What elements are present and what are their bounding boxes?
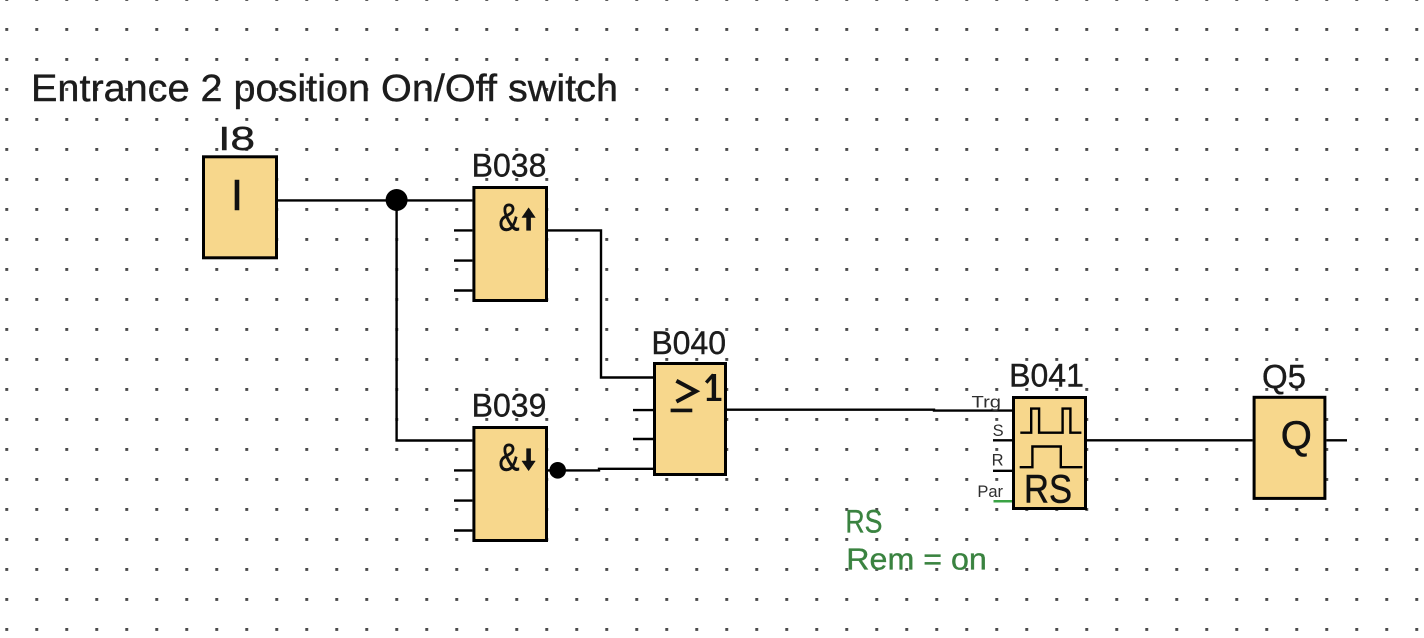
- svg-text:B041: B041: [1009, 358, 1084, 394]
- svg-text:S: S: [993, 422, 1004, 440]
- svg-text:R: R: [992, 451, 1004, 469]
- svg-text:&: &: [499, 196, 520, 239]
- svg-text:B038: B038: [472, 148, 547, 184]
- svg-text:Rem = on: Rem = on: [846, 542, 987, 577]
- svg-text:B040: B040: [651, 325, 726, 361]
- svg-text:RS: RS: [845, 503, 882, 539]
- svg-text:Trg: Trg: [972, 393, 1002, 411]
- svg-text:Q: Q: [1281, 414, 1312, 458]
- svg-text:&: &: [499, 436, 520, 479]
- svg-text:Par: Par: [977, 483, 1003, 501]
- svg-text:Q5: Q5: [1262, 358, 1306, 395]
- svg-text:I: I: [231, 171, 243, 220]
- svg-text:RS: RS: [1024, 468, 1072, 512]
- svg-text:I8: I8: [218, 120, 255, 157]
- svg-text:B039: B039: [472, 388, 547, 424]
- svg-text:Entrance 2 position On/Off swi: Entrance 2 position On/Off switch: [31, 68, 618, 110]
